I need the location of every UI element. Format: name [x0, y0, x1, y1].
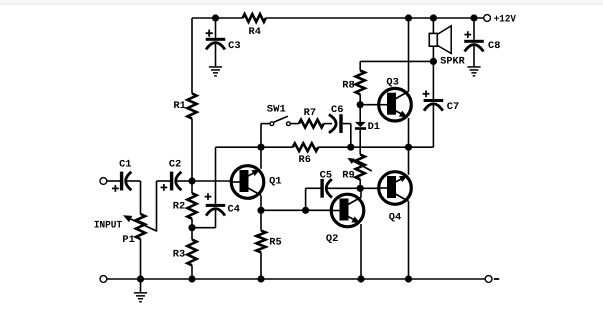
node C8 top rail: [470, 14, 477, 21]
svg-text:C7: C7: [447, 102, 459, 113]
node Q4 collector bottom: [405, 275, 412, 282]
wire ground stem: [140, 279, 142, 292]
wire P1 to bottom rail: [140, 239, 142, 279]
svg-text:C1: C1: [119, 159, 131, 170]
label R7: [304, 108, 316, 119]
resistor R5: [256, 231, 265, 253]
trimmer R9 body: [356, 155, 365, 180]
wire Q2 emitter down: [360, 224, 362, 279]
label INPUT: [94, 221, 122, 232]
node R2 R3 C4 junction: [188, 224, 195, 231]
label +12V: [494, 14, 516, 25]
wire C7 stem: [432, 105, 434, 148]
svg-text:R2: R2: [173, 202, 185, 213]
svg-text:+12V: +12V: [494, 14, 516, 25]
svg-text:R5: R5: [269, 237, 281, 248]
label D1: [368, 122, 380, 133]
node Q3 base junction: [357, 101, 364, 108]
label C8: [488, 41, 500, 52]
wire wiper riser: [156, 181, 158, 232]
wire output row seg2: [318, 146, 433, 148]
capacitor C1: [120, 172, 123, 191]
svg-text:C6: C6: [331, 105, 343, 116]
svg-text:Q3: Q3: [386, 77, 398, 88]
node C2 base junction: [188, 177, 195, 184]
label C7: [447, 102, 459, 113]
capacitor C7: [424, 99, 444, 102]
wire C5 riser: [305, 188, 307, 210]
capacitor C8: [464, 40, 484, 43]
wire to SW1: [261, 123, 270, 125]
label R6: [299, 155, 311, 166]
terminal input circle: [100, 178, 107, 185]
label R5: [269, 237, 281, 248]
label R1: [173, 101, 185, 112]
node C6 output junction: [347, 144, 354, 151]
resistor R2: [187, 193, 196, 219]
transistor Q2: [331, 194, 364, 227]
wire Q4 collector down: [408, 201, 410, 279]
label C6: [331, 105, 343, 116]
node ground junction: [137, 275, 144, 282]
resistor R6: [293, 143, 319, 151]
svg-text:D1: D1: [368, 122, 380, 133]
svg-text:Q1: Q1: [269, 176, 281, 187]
wire top rail right segment: [266, 17, 484, 19]
wire C8 stub: [473, 18, 475, 40]
svg-text:C5: C5: [320, 170, 332, 181]
label Q2: [326, 234, 338, 245]
node C5 junction: [302, 207, 309, 214]
wire R7 to C6: [324, 123, 332, 125]
wire R5 bottom: [260, 252, 262, 279]
svg-text:R3: R3: [173, 249, 185, 260]
plus C8: [464, 34, 471, 36]
label C3: [228, 41, 240, 52]
wire R2 to R3 node: [191, 219, 193, 240]
switch SW1 pole: [270, 122, 274, 126]
label R8: [342, 80, 354, 91]
plus C1: [112, 188, 119, 190]
svg-text:R7: R7: [304, 108, 316, 119]
wire R8 top corner: [359, 61, 361, 70]
wire switch riser: [260, 124, 262, 148]
label C2: [169, 159, 181, 170]
wire top rail left segment: [192, 17, 243, 19]
diode D1: [355, 122, 366, 127]
wire output row seg1: [216, 146, 293, 148]
top window band: [0, 0, 603, 4]
ground under C3: [209, 66, 222, 68]
capacitor C6: [339, 114, 342, 133]
resistor R4: [243, 14, 266, 22]
terminal input bottom circle: [100, 276, 107, 283]
plus C7: [423, 93, 430, 95]
ground bottom left: [134, 292, 147, 294]
wire Q3 collector up: [408, 18, 410, 92]
node output row left: [257, 144, 264, 151]
label C5: [320, 170, 332, 181]
node C3 top rail: [212, 14, 219, 21]
label R2: [173, 202, 185, 213]
wire C6 drop: [350, 124, 352, 148]
svg-text:C3: C3: [228, 41, 240, 52]
wire Q4 emitter up: [408, 147, 410, 175]
capacitor C2: [170, 172, 173, 191]
label C1: [119, 159, 131, 170]
svg-text:INPUT: INPUT: [94, 221, 122, 232]
svg-text:C4: C4: [228, 205, 240, 216]
wire R8 bottom: [359, 94, 361, 104]
node SPKR: [430, 58, 437, 65]
wire C1 to corner: [127, 180, 141, 182]
label minus: [494, 278, 499, 280]
node output row x408: [405, 144, 412, 151]
label R4: [249, 27, 261, 38]
trimmer R9 arrow: [351, 160, 372, 171]
wire C8 to ground: [473, 45, 475, 67]
wire C4 riser: [215, 147, 217, 204]
plus C2: [161, 187, 168, 189]
svg-text:P1: P1: [122, 235, 134, 246]
plus C3: [206, 32, 213, 34]
resistor R7: [299, 120, 324, 128]
wire SW1 to R7: [290, 123, 299, 125]
svg-text:R4: R4: [249, 27, 261, 38]
wire C2 feed: [157, 180, 171, 182]
transistor Q1: [231, 166, 264, 199]
wire speaker stub: [432, 18, 434, 33]
node R5 bottom: [257, 275, 264, 282]
label P1: [122, 235, 134, 246]
transistor Q4: [379, 172, 412, 205]
wire R9 bottom: [359, 179, 361, 188]
resistor R8: [356, 71, 365, 95]
capacitor C4: [206, 204, 226, 207]
plus C4: [205, 196, 212, 198]
svg-text:SPKR: SPKR: [440, 57, 464, 68]
wire C5 to Q4 base: [327, 187, 378, 189]
svg-text:R1: R1: [173, 101, 185, 112]
wire C3 to ground: [215, 44, 217, 67]
wire bottom rail: [107, 278, 486, 280]
capacitor C5: [320, 179, 323, 198]
svg-text:R6: R6: [299, 155, 311, 166]
node speaker top rail: [430, 14, 437, 21]
svg-text:R9: R9: [342, 170, 354, 181]
terminal minus circle: [485, 276, 492, 283]
wire D1 top stem: [359, 105, 361, 123]
label Q4: [389, 213, 401, 224]
svg-text:C8: C8: [488, 41, 500, 52]
wire R3 to bottom rail: [191, 265, 193, 279]
wire C4 bottom: [215, 210, 217, 228]
label R9: [342, 170, 354, 181]
wire Q3 base: [360, 104, 378, 106]
wire Q1 collector down: [260, 196, 262, 211]
svg-text:SW1: SW1: [267, 105, 286, 116]
node R3 bottom: [188, 275, 195, 282]
wire input to C1: [107, 180, 120, 182]
label C4: [228, 205, 240, 216]
svg-text:C2: C2: [169, 159, 181, 170]
label Q1: [269, 176, 281, 187]
resistor R1: [187, 94, 196, 119]
node top rail x408: [405, 14, 412, 21]
switch SW1 lever: [274, 116, 288, 122]
wire C4 to R2R3 node: [192, 227, 216, 229]
wire row 210: [261, 209, 331, 211]
wire speaker to SPKR node: [432, 46, 434, 99]
ground under C8: [467, 66, 480, 68]
transistor Q3: [379, 88, 412, 121]
svg-text:R8: R8: [342, 80, 354, 91]
wire Q2 collector up: [360, 188, 362, 197]
wire C6 to corner: [343, 123, 351, 125]
wire D1 to R9: [359, 130, 361, 155]
node R9 bottom junction: [357, 185, 364, 192]
capacitor C3: [206, 38, 226, 41]
wire row 61 to speaker: [360, 60, 433, 62]
speaker SPKR: [437, 26, 451, 54]
wire Q1 base: [192, 180, 231, 182]
wire C2 to base node: [176, 180, 192, 182]
node Q2 emitter bottom: [357, 275, 364, 282]
potentiometer P1 wiper: [127, 217, 157, 231]
potentiometer P1 body: [136, 214, 145, 239]
wire C5 feed: [306, 187, 321, 189]
node Q1 collector junction: [257, 207, 264, 214]
label Q3: [386, 77, 398, 88]
svg-text:Q2: Q2: [326, 234, 338, 245]
resistor R3: [187, 240, 196, 266]
wire Q1 emitter up: [260, 147, 262, 169]
wire left drop to R1: [191, 18, 193, 94]
wire R1 to C2 node: [191, 119, 193, 194]
label R3: [173, 249, 185, 260]
terminal +12V circle: [484, 15, 491, 22]
switch SW1 throw: [287, 122, 291, 126]
wire Q3 emitter down: [408, 118, 410, 147]
svg-text:Q4: Q4: [389, 213, 401, 224]
wire corner down to P1: [140, 181, 142, 214]
label SW1: [267, 105, 286, 116]
wire C3 stub: [215, 18, 217, 38]
wire R5 top: [260, 210, 262, 230]
label SPKR: [440, 57, 464, 68]
